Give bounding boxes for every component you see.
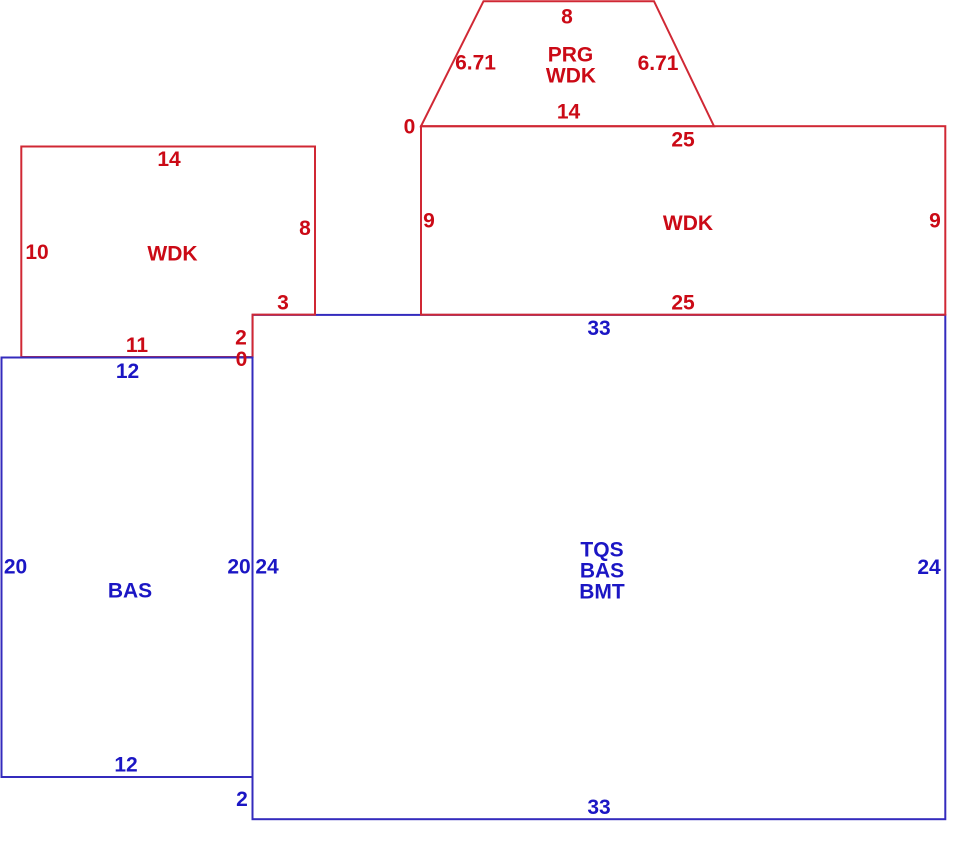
svg-text:3: 3 — [277, 292, 289, 315]
svg-text:14: 14 — [557, 100, 581, 123]
svg-text:12: 12 — [116, 360, 139, 383]
area PRG WDK trapezoid outline — [421, 1, 714, 126]
area TQS/BAS/BMT outline — [253, 315, 946, 819]
svg-text:9: 9 — [423, 210, 435, 233]
svg-text:WDK: WDK — [546, 65, 596, 88]
svg-text:0: 0 — [236, 348, 248, 371]
svg-text:20: 20 — [4, 556, 27, 579]
svg-text:2: 2 — [235, 326, 247, 349]
svg-text:2: 2 — [236, 788, 248, 811]
svg-text:25: 25 — [671, 128, 695, 151]
svg-text:33: 33 — [587, 796, 610, 819]
svg-text:33: 33 — [587, 317, 610, 340]
area WDK (right) outline — [421, 126, 945, 315]
svg-text:20: 20 — [227, 556, 250, 579]
svg-text:6.71: 6.71 — [455, 52, 496, 75]
svg-text:BMT: BMT — [579, 580, 625, 603]
svg-text:12: 12 — [114, 753, 137, 776]
svg-text:8: 8 — [561, 6, 573, 29]
svg-text:TQS: TQS — [580, 538, 623, 561]
svg-text:BAS: BAS — [108, 580, 152, 603]
svg-text:6.71: 6.71 — [638, 52, 679, 75]
svg-text:10: 10 — [25, 241, 48, 264]
svg-text:24: 24 — [255, 556, 279, 579]
svg-text:25: 25 — [671, 292, 695, 315]
area BAS outline — [2, 358, 253, 778]
area WDK (left) outline — [21, 147, 315, 358]
svg-text:0: 0 — [404, 115, 416, 138]
svg-text:WDK: WDK — [663, 212, 713, 235]
svg-text:11: 11 — [126, 334, 149, 357]
svg-text:24: 24 — [917, 556, 941, 579]
svg-text:BAS: BAS — [580, 559, 624, 582]
svg-text:14: 14 — [157, 148, 181, 171]
svg-text:9: 9 — [929, 210, 941, 233]
svg-text:WDK: WDK — [147, 243, 197, 266]
svg-text:8: 8 — [299, 217, 311, 240]
svg-text:PRG: PRG — [548, 44, 594, 67]
